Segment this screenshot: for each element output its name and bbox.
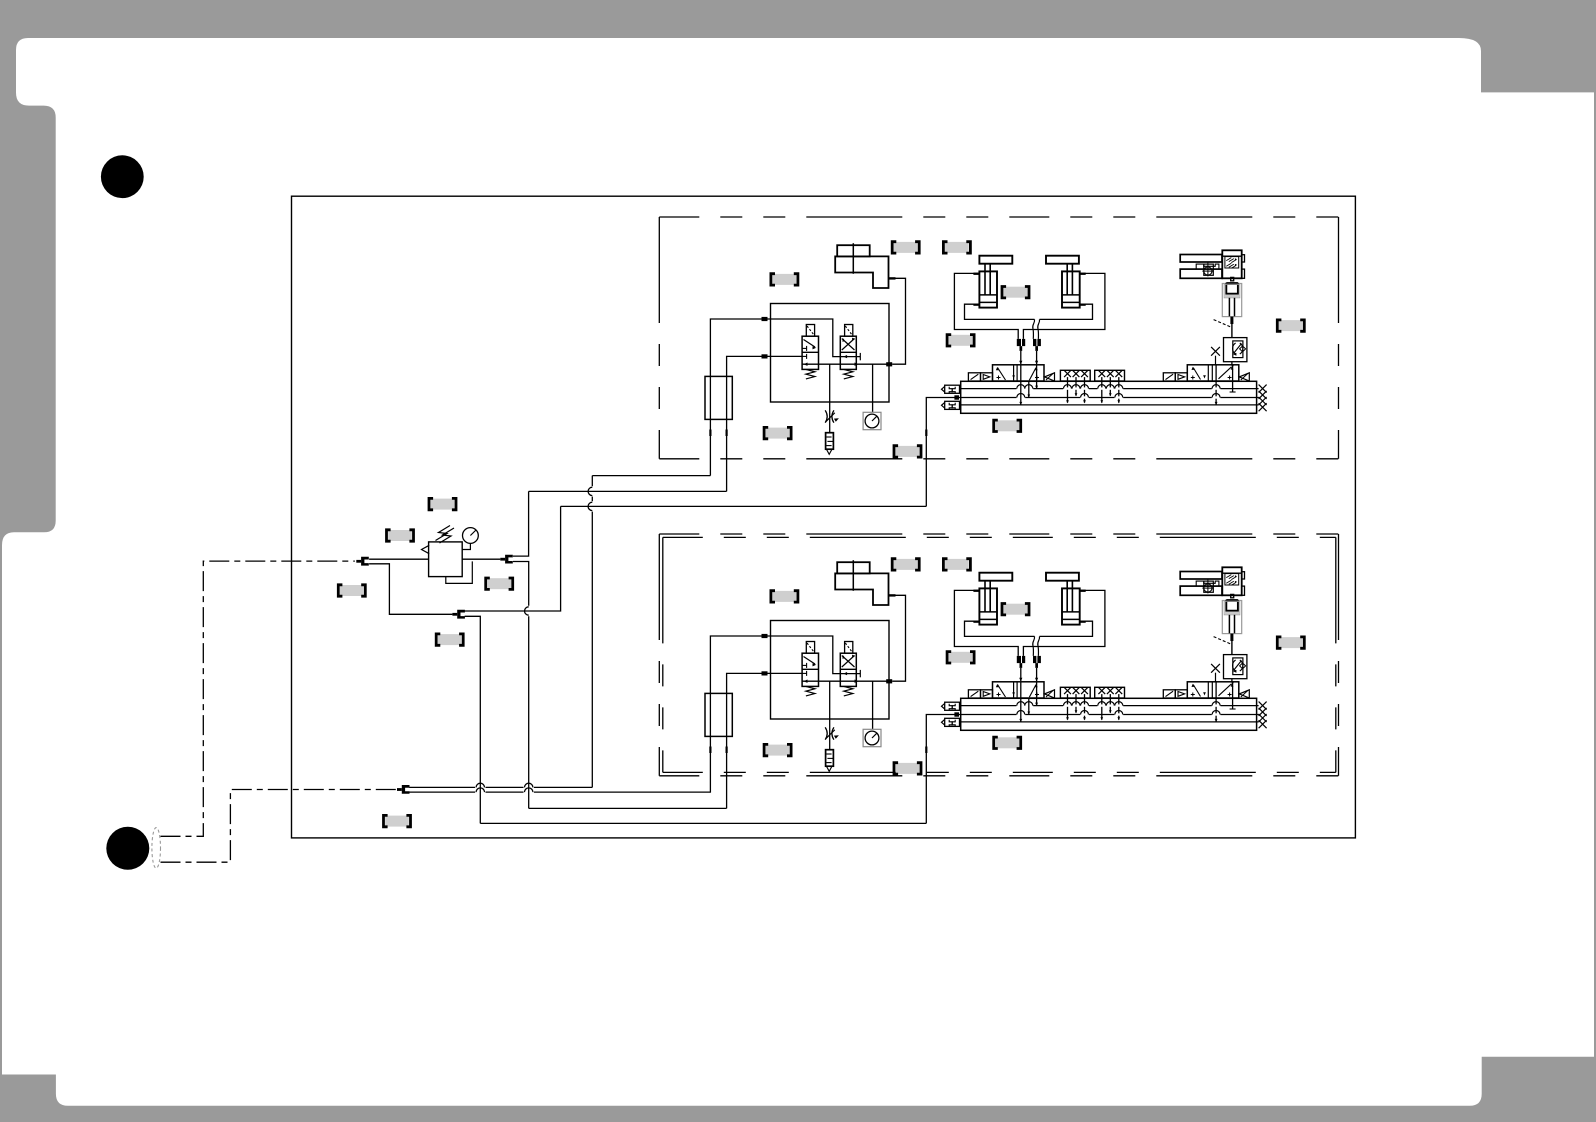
label tag (system B) (994, 737, 1021, 748)
port pad (system A) (889, 277, 896, 279)
lever (system B) (1214, 637, 1231, 644)
cylinder C1 port pads (system A) (973, 273, 979, 275)
supply line D1 (dash-dot) (161, 561, 355, 836)
cylinder C1 crosshead (system B) (979, 573, 1012, 581)
label tag M1 (429, 498, 456, 509)
label tag (system A) (892, 242, 919, 253)
wire internal pilot (system A) (764, 319, 842, 357)
pilot valve P2 (system B) (1163, 690, 1175, 698)
gripper bar lower (system A) (1180, 269, 1222, 278)
wire internal pilot (system B) (764, 636, 842, 674)
port pad (system B) (889, 594, 896, 596)
spring V2 (system B) (844, 686, 853, 696)
flow control symbol (system A) (1233, 343, 1236, 354)
port pad (system A) (709, 430, 711, 437)
bracket body (system A) (835, 256, 888, 288)
actuator stem (system A) (1230, 317, 1233, 324)
wire regulator out (462, 558, 500, 560)
port pad (system B) (726, 747, 728, 754)
spring V2 (system A) (844, 369, 853, 379)
rotary stub (system A) (1242, 255, 1245, 262)
solenoid valve V2 body (system A) (840, 336, 856, 369)
solenoid coil V2 (system B) (845, 642, 853, 654)
pressure gauge (system A) (863, 412, 881, 429)
label tag M4 (486, 578, 513, 589)
wire (591, 476, 593, 487)
flow control unit (system B) (1224, 655, 1247, 679)
enclosure boundary (system B) inner (663, 536, 1336, 538)
V1 blocked port (system B) (802, 664, 807, 666)
silencer port 2 (system B) (945, 718, 960, 726)
V2 pilot line (system B) (842, 673, 861, 675)
filter F (system B) (705, 693, 732, 736)
label tag M3 (338, 585, 365, 596)
wire gauge (system A) (872, 364, 874, 412)
wire valve drain (system A) (1028, 381, 1030, 397)
plug X group (system B) (1259, 702, 1267, 710)
M2 return cap (system B) (1239, 690, 1249, 698)
cylinder C2 crosshead (system B) (1046, 573, 1079, 581)
wire (591, 497, 593, 502)
wire gauge (system B) (872, 681, 874, 729)
V1 port mark (system B) (802, 672, 807, 674)
wire pilot-supply right (system B) (727, 673, 764, 808)
clamp guide (system A) (1224, 284, 1240, 298)
label tag (system B) (892, 559, 919, 570)
slide housing (system A) (1222, 284, 1241, 317)
pilot valve P2 arrow (system B) (1175, 690, 1187, 698)
wire tube B lower (system B) (1036, 682, 1038, 706)
wire branch 3a (409, 786, 475, 788)
needle vent X (system B) (1211, 664, 1220, 673)
module MB (system A) (1095, 370, 1125, 381)
solenoid valve V1 body (system A) (802, 336, 818, 369)
regulator relief triangle (422, 545, 430, 553)
cylinder C1 body (system A) (979, 271, 997, 307)
wire bracket to valve unit (system B) (892, 595, 905, 681)
cylinder C2 body (system A) (1062, 271, 1080, 307)
spring V1 (system A) (806, 369, 815, 379)
cylinder C1 port pads (system B) (973, 590, 979, 592)
hose B right (system B) (1038, 636, 1040, 656)
port pad (system A) (925, 430, 927, 437)
hose B left (system B) (1033, 636, 1035, 656)
hose B left (system A) (1033, 319, 1035, 339)
port pad (system A) (762, 354, 768, 358)
wire tube B upper (system B) (1036, 668, 1038, 681)
manifold rail 1 (system A) (961, 388, 1259, 390)
valve unit enclosure (system B) (771, 621, 890, 720)
main valve M2 (system B) (1187, 682, 1239, 698)
diagram outer border (292, 196, 1356, 838)
rotary stub (system B) (1242, 572, 1245, 579)
module MB drops (system B) (1101, 694, 1103, 720)
wire branch 2 down (369, 564, 452, 615)
bracket block (system A) (837, 245, 870, 256)
coupling 3 (452, 613, 457, 616)
label tag M5 (436, 634, 463, 645)
label tag (system B) (894, 763, 921, 774)
manifold rail 3 (system A) (961, 404, 1259, 406)
V1 port mark (system A) (802, 355, 807, 357)
wire supply to regulator (369, 558, 429, 560)
cylinder C2 rod (system B) (1066, 581, 1068, 612)
hose jump (588, 502, 592, 510)
M1 return cap (system A) (1045, 373, 1055, 381)
label tag (system B) (943, 559, 970, 570)
wire cylinder rear ports (system A) (954, 273, 1018, 339)
label tag (system B) (764, 744, 791, 755)
wire tube A lower (system A) (1020, 365, 1022, 405)
port pad (system A) (886, 362, 892, 366)
clamp block (system B) (1226, 599, 1238, 602)
wire tube A upper (system A) (1020, 351, 1022, 364)
wire common output (system B) (802, 680, 889, 682)
port pad manifold inlet (system A) (954, 395, 959, 399)
manifold rail 2 (system A) (961, 397, 1259, 399)
port pad (system B) (762, 671, 768, 675)
throttle valve (system B) (825, 727, 839, 739)
pilot valve P1 (system B) (968, 690, 980, 698)
label tag (system A) (771, 274, 798, 285)
slide rod (system A) (1228, 298, 1230, 317)
regulator vent path (446, 561, 473, 583)
label tag (system A) (1002, 287, 1029, 298)
solenoid coil V2 (system A) (845, 325, 853, 337)
coupling 2 (500, 558, 505, 561)
main valve M1 (system B) (993, 682, 1045, 698)
M2 return cap (system A) (1239, 373, 1249, 381)
M2 internals (system B) (1193, 685, 1200, 697)
module MA (system A) (1060, 370, 1090, 381)
clamp block (system A) (1226, 282, 1238, 285)
module MA (system B) (1060, 687, 1090, 698)
slide housing (system B) (1222, 601, 1241, 634)
module MA drops (system B) (1067, 694, 1069, 720)
gripper slide (system B) (1196, 581, 1219, 586)
module MB (system B) (1095, 687, 1125, 698)
clamp guide (system B) (1224, 601, 1240, 615)
port pad manifold inlet (system B) (954, 712, 959, 716)
hose B right (system A) (1038, 319, 1040, 339)
tube fitting pair A (system B) (1017, 656, 1021, 663)
pilot valve P2 arrow (system A) (1175, 373, 1187, 381)
flow control unit (system A) (1224, 338, 1247, 362)
enclosure boundary (system B) outer (659, 533, 1338, 535)
wire tube B upper (system A) (1036, 351, 1038, 364)
filter F (system A) (705, 376, 732, 419)
arrow (system B) (804, 680, 808, 683)
wire internal feed (system B) (764, 672, 802, 674)
wire to manifold B (465, 616, 481, 823)
port pad (system A) (762, 317, 768, 321)
label tag (system A) (764, 427, 791, 438)
silencer (system A) (826, 433, 834, 450)
rotary stub (system A) (1242, 269, 1245, 278)
sensor square (system A) (1204, 264, 1214, 275)
pilot valve P1 arrow (system A) (981, 373, 993, 381)
regulator body (429, 542, 463, 577)
rotary neck (system A) (1231, 277, 1234, 280)
wire exhaust (system B) (829, 681, 831, 750)
gripper bar lower (system B) (1180, 586, 1222, 595)
V1 flow path (system A) (804, 340, 816, 348)
arrow (system A) (804, 363, 808, 366)
wire branch 1a (513, 491, 529, 556)
wire valve drain (system B) (1028, 698, 1030, 714)
actuator stem (system B) (1230, 634, 1233, 641)
enclosure boundary (system A) (659, 216, 1338, 218)
arrow (system B) (855, 680, 859, 683)
manifold body (system B) (961, 698, 1257, 730)
wire common output (system A) (802, 363, 889, 365)
label tag (system A) (994, 420, 1021, 431)
port pad (system B) (886, 679, 892, 683)
wire H2 to filter A right (529, 490, 727, 492)
silencer port 1 (system A) (945, 385, 960, 393)
port pad (system B) (709, 747, 711, 754)
label tag M7 (384, 815, 411, 826)
slide rod (system B) (1228, 615, 1230, 634)
V2 crossed path (system A) (842, 339, 855, 351)
gripper bar upper (system A) (1180, 255, 1222, 263)
gripper bar upper (system B) (1180, 572, 1222, 580)
label tag (system A) (894, 446, 921, 457)
hose coupling ellipse (152, 828, 161, 869)
M1 internals (system B) (998, 685, 1006, 697)
regulator spring (436, 526, 451, 541)
coupling 4 (397, 788, 402, 791)
rotary stub (system B) (1242, 586, 1245, 595)
throttle valve (system A) (825, 410, 839, 422)
valve unit enclosure (system A) (771, 304, 890, 403)
manifold rail 3 (system B) (961, 721, 1259, 723)
wire tube A lower (system B) (1020, 682, 1022, 722)
M1 internals (system A) (998, 368, 1006, 380)
spring V1 (system B) (806, 686, 815, 696)
wire tube A upper (system B) (1020, 668, 1022, 681)
wire cylinder front ports (system B) (965, 621, 1035, 636)
wire bracket to valve unit (system A) (892, 278, 905, 364)
pilot valve P1 arrow (system B) (981, 690, 993, 698)
silencer port 1 (system B) (945, 702, 960, 710)
wire branch 3b (409, 791, 475, 793)
wire manifold supply (system A) (926, 398, 960, 507)
cylinder C1 body (system B) (979, 588, 997, 624)
wire to manifold A (465, 506, 561, 611)
label tag (system B) (1277, 637, 1304, 648)
needle vent X (system A) (1211, 347, 1220, 356)
rotary unit body (system B) (1222, 567, 1241, 595)
rotary flow controls (system B) (1225, 574, 1239, 585)
label tag M2 (387, 530, 414, 541)
wire cylinder front ports (system A) (965, 304, 1035, 319)
wire branch 1b (513, 562, 529, 606)
solenoid coil V1 (system B) (806, 642, 814, 654)
wire internal feed (system A) (764, 355, 802, 357)
wire pilot-supply right (system A) (727, 356, 764, 491)
pressure gauge (system B) (863, 729, 881, 746)
cylinder C2 port pads (system B) (1080, 590, 1086, 592)
cylinder C2 rod (system A) (1066, 264, 1068, 295)
tube fitting pair B (system B) (1033, 656, 1036, 663)
flow control outlet (system A) (1231, 362, 1233, 365)
gripper slide (system A) (1196, 264, 1219, 269)
hose jump (588, 487, 592, 495)
M2 drop feed (system A) (1232, 367, 1234, 393)
air source dot 2 (106, 827, 149, 870)
arrow (system A) (855, 363, 859, 366)
bracket stem (system A) (852, 243, 854, 274)
solenoid valve V2 body (system B) (840, 653, 856, 686)
pilot valve P1 (system A) (968, 373, 980, 381)
plug X group (system A) (1259, 385, 1267, 393)
bracket stem (system B) (852, 560, 854, 591)
V2 pilot line (system A) (842, 356, 861, 358)
wire exhaust (system A) (829, 364, 831, 433)
supply line D2 (dash-dot) (161, 790, 398, 863)
cylinder C2 port pads (system A) (1080, 273, 1086, 275)
silencer port 2 (system A) (945, 401, 960, 409)
label tag (system A) (947, 335, 974, 346)
label tag (system A) (1277, 320, 1304, 331)
M2 drop exhaust (system B) (1215, 682, 1217, 722)
lever (system A) (1214, 320, 1231, 327)
flow control outlet (system B) (1231, 679, 1233, 682)
silencer outlet (system B) (826, 766, 832, 771)
manifold rail 1 (system B) (961, 705, 1259, 707)
port pad (system A) (726, 430, 728, 437)
cylinder C1 crosshead (system A) (979, 256, 1012, 264)
pilot valve P2 (system A) (1163, 373, 1175, 381)
module MA drops (system A) (1067, 377, 1069, 403)
main valve M2 (system A) (1187, 365, 1239, 381)
V1 blocked port (system A) (802, 347, 807, 349)
manifold rail 2 (system B) (961, 714, 1259, 716)
silencer outlet (system A) (826, 449, 832, 454)
solenoid coil V1 (system A) (806, 325, 814, 337)
coupling 1 (356, 560, 361, 563)
rotary flow controls (system A) (1225, 257, 1239, 268)
tube fitting pair A (system A) (1017, 339, 1021, 346)
silencer (system B) (826, 750, 834, 767)
module MB drops (system A) (1101, 377, 1103, 403)
M2 drop feed (system B) (1232, 684, 1234, 710)
V1 flow path (system B) (804, 657, 816, 665)
M1 return cap (system B) (1045, 690, 1055, 698)
bracket body (system B) (835, 573, 888, 605)
manifold body (system A) (961, 381, 1257, 413)
V2 crossed path (system B) (842, 656, 855, 668)
rail jump arcs (system A) (1016, 387, 1025, 389)
wire pilot-supply left (system A) (710, 319, 764, 476)
label tag (system B) (771, 591, 798, 602)
port pad (system B) (925, 747, 927, 754)
label tag (system B) (1002, 604, 1029, 615)
port pad (system B) (762, 634, 768, 638)
label tag (system B) (947, 652, 974, 663)
wire tube B lower (system A) (1036, 365, 1038, 389)
wire manifold supply (system B) (926, 715, 960, 824)
M2 drop exhaust (system A) (1215, 365, 1217, 405)
flow control symbol (system B) (1233, 660, 1236, 671)
bracket block (system B) (837, 562, 870, 573)
wire pilot-supply left (system B) (710, 636, 764, 793)
label tag (system A) (943, 242, 970, 253)
cylinder C2 crosshead (system A) (1046, 256, 1079, 264)
rotary neck (system B) (1231, 594, 1234, 597)
cylinder C1 rod (system A) (984, 264, 986, 295)
tube fitting pair B (system A) (1033, 339, 1036, 346)
sensor square (system B) (1204, 581, 1214, 592)
wire cylinder rear ports (system B) (954, 590, 1018, 656)
air source dot 1 (101, 155, 144, 198)
cylinder C2 body (system B) (1062, 588, 1080, 624)
solenoid valve V1 body (system B) (802, 653, 818, 686)
rotary unit body (system A) (1222, 250, 1241, 278)
regulator gauge (463, 528, 479, 544)
rail jump arcs (system B) (1016, 704, 1025, 706)
main valve M1 (system A) (993, 365, 1045, 381)
M2 internals (system A) (1193, 368, 1200, 380)
cylinder C1 rod (system B) (984, 581, 986, 612)
